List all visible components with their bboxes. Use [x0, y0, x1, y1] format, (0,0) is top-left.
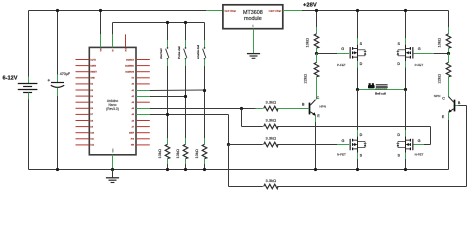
ground symbol below arduino: [112, 170, 114, 178]
wire drive2 down to bottom run: [228, 145, 230, 187]
wire R4 to gate node: [316, 48, 318, 54]
node doorbell ground: [166, 168, 169, 171]
wire switch feed rail: [113, 22, 205, 24]
capacitor C1 470uF: [57, 11, 59, 75]
svg-text:GND: GND: [91, 78, 96, 80]
svg-text:RESET: RESET: [91, 72, 98, 74]
svg-text:D: D: [397, 62, 400, 66]
svg-text:A5: A5: [132, 113, 134, 116]
wire arduino GND pin down: [112, 155, 114, 168]
resistor R3 10k pulldown: [202, 144, 207, 158]
wire R7 down to NPN Q6 collector: [448, 77, 450, 97]
node switch feed Pulse dail: [184, 21, 187, 24]
wire drive2 down: [228, 115, 230, 145]
wire 5V pin up to switch feed rail: [112, 34, 114, 47]
wire Pulse dail column: [185, 66, 187, 138]
svg-text:N-FET: N-FET: [415, 153, 424, 157]
svg-text:N-FET: N-FET: [337, 153, 346, 157]
wire 22k column 2: [448, 54, 450, 63]
node cap ground junction: [56, 168, 59, 171]
transistor Q6 NPN (mirrored): [454, 100, 456, 112]
wire battery positive lead: [28, 11, 30, 77]
svg-text:NPN: NPN: [434, 94, 441, 98]
transistor Q2 P-FET high side right (mirrored): [412, 47, 413, 58]
wire ground rail: [29, 169, 449, 171]
svg-text:doorbell: doorbell: [159, 48, 163, 59]
node Q2 source rail: [404, 9, 407, 12]
svg-text:D5: D5: [91, 102, 93, 104]
resistor R1 10k pulldown: [165, 144, 170, 158]
wire 10k divider column 1 from rail: [316, 11, 318, 28]
svg-text:D: D: [360, 62, 363, 66]
resistor R2 10k pulldown: [183, 144, 188, 158]
wire Q6 base lead: [456, 105, 459, 107]
svg-text:D1/TX: D1/TX: [91, 59, 97, 61]
svg-text:10kΩ: 10kΩ: [194, 149, 199, 158]
switch enable dail: [204, 23, 206, 41]
svg-text:3.3kΩ: 3.3kΩ: [266, 178, 277, 183]
node bell left: [356, 88, 359, 91]
switch Pulse dail: [185, 23, 187, 41]
wire drive1 to N-FET Q4 gate run: [242, 126, 263, 128]
node divider1 top: [315, 9, 318, 12]
battery BT1 6-12V: [18, 83, 38, 85]
node battery/cap junction on top rail: [56, 9, 59, 12]
svg-text:D6: D6: [91, 108, 93, 110]
transistor Q3 N-FET low side left: [350, 139, 351, 150]
svg-text:D12/MISO: D12/MISO: [125, 65, 134, 67]
wire VIN pin to top rail: [100, 11, 102, 35]
wire R5 down to NPN Q5 collector: [316, 77, 318, 100]
svg-text:AREF: AREF: [129, 132, 135, 135]
transistor Q5 NPN: [309, 103, 311, 115]
node arduino ground junction: [111, 168, 114, 171]
resistor R4 10k: [314, 34, 319, 48]
wire 22k column 1: [316, 54, 318, 63]
wire top rail from battery to MT3608 input: [29, 10, 207, 12]
node gate1 divider: [315, 52, 318, 55]
svg-text:6-12V: 6-12V: [3, 76, 18, 82]
wire Q5 emitter to ground: [315, 115, 317, 122]
svg-text:D11: D11: [91, 139, 94, 141]
svg-text:D12: D12: [91, 145, 94, 147]
svg-text:D8: D8: [91, 120, 93, 122]
node Q4 source ground: [404, 168, 407, 171]
svg-text:A3: A3: [132, 101, 134, 104]
node enable dail ground: [203, 168, 206, 171]
switch doorbell: [167, 23, 169, 41]
svg-text:D3: D3: [91, 90, 93, 92]
svg-text:22kΩ: 22kΩ: [302, 74, 307, 83]
svg-text:D4: D4: [91, 96, 93, 98]
svg-text:D11/MOSI: D11/MOSI: [125, 72, 134, 74]
transistor Q4 N-FET low side right (mirrored): [412, 139, 413, 150]
wire Q2 gate from divider 2: [434, 53, 449, 55]
svg-text:G: G: [341, 47, 344, 51]
svg-text:3.3kΩ: 3.3kΩ: [266, 136, 277, 141]
wire R2 to ground: [185, 159, 187, 164]
wire Q3 drain from bell: [357, 90, 359, 131]
svg-text:enable dail: enable dail: [196, 44, 200, 58]
node VIN junction on top rail: [99, 9, 102, 12]
svg-text:G: G: [418, 47, 421, 51]
node Pulse dail tap: [184, 95, 187, 98]
svg-text:⏚: ⏚: [252, 24, 254, 28]
svg-text:NPN: NPN: [319, 105, 326, 109]
svg-text:P-FET: P-FET: [337, 63, 346, 67]
wire MT3608 ground lead: [253, 29, 255, 54]
svg-text:+28V: +28V: [303, 2, 317, 8]
node drive1 branch: [240, 107, 243, 110]
wire Q2 drain to bell: [405, 61, 407, 68]
resistor R11 3.3k base drive 2: [264, 184, 278, 189]
arduino top pin stub D13: [125, 34, 127, 47]
svg-text:470µF: 470µF: [60, 72, 71, 76]
node switch feed doorbell: [166, 21, 169, 24]
wire Q1 source to +28V rail: [357, 11, 359, 39]
node Q5 emitter ground: [314, 168, 317, 171]
wire R1 to ground: [167, 159, 169, 164]
svg-text:A0: A0: [132, 83, 134, 86]
svg-text:D9: D9: [91, 126, 93, 128]
wire capacitor bottom lead: [57, 88, 59, 96]
ground symbol below MT3608: [247, 53, 260, 55]
svg-text:D0/RX: D0/RX: [91, 65, 97, 67]
svg-text:A4: A4: [132, 107, 134, 110]
wire R6 to gate2 node: [448, 48, 450, 54]
svg-text:3V3: 3V3: [126, 48, 128, 51]
wire R9 to Q4 gate corner: [277, 126, 430, 128]
wire doorbell column: [167, 66, 169, 138]
wire enable dail column: [204, 66, 206, 138]
wire Q6 emitter to ground rail corner: [448, 113, 450, 120]
wire Q2 source to +28V rail: [405, 11, 407, 39]
svg-text:module: module: [244, 16, 262, 22]
svg-text:D2: D2: [91, 84, 93, 86]
wire +28V rail from MT3608 output: [283, 10, 302, 12]
wire R11 to right edge and up to Q6 base: [277, 186, 466, 188]
node doorbell/drive2 junction: [166, 113, 169, 116]
node Pulse dail ground: [184, 168, 187, 171]
arduino right pin stubs (unconnected): [136, 59, 150, 61]
svg-text:D7: D7: [91, 114, 93, 116]
resistor R6 10k: [446, 34, 451, 48]
node enable dail tap: [203, 89, 206, 92]
svg-text:3V3: 3V3: [131, 139, 134, 141]
svg-text:D13/SCK: D13/SCK: [126, 59, 135, 61]
svg-text:10kΩ: 10kΩ: [175, 149, 180, 158]
svg-text:input voltage: input voltage: [225, 10, 237, 13]
wire bottom run to NPN Q6 base: [229, 186, 263, 188]
wire gate1 to P-FET Q1: [317, 53, 338, 55]
svg-text:C: C: [317, 96, 320, 100]
wire R3 to ground: [204, 159, 206, 164]
svg-text:A6: A6: [132, 119, 134, 122]
arduino U1 Nano Rev3.0 box: [89, 47, 136, 154]
svg-text:D: D: [397, 133, 400, 137]
wire R10 to Q3 gate: [277, 144, 337, 146]
svg-text:Bell coil: Bell coil: [375, 92, 386, 96]
svg-text:10kΩ: 10kΩ: [157, 149, 162, 158]
wire R8 to Q5 base: [277, 108, 295, 110]
resistor R10 3.3k gate drive: [264, 142, 278, 147]
svg-text:3.3kΩ: 3.3kΩ: [266, 99, 277, 104]
resistor R5 22k: [314, 62, 319, 76]
wire Q5 base lead: [295, 108, 309, 110]
node gate2 divider: [447, 52, 450, 55]
transistor Q1 P-FET high side left: [350, 47, 351, 58]
svg-text:D10: D10: [91, 133, 94, 135]
wire drive2 to N-FET Q3 gate: [229, 144, 263, 146]
wire 10k divider column 2 from rail corner: [448, 11, 450, 28]
wire Q4 source to ground: [405, 153, 407, 159]
resistor R9 3.3k gate drive: [264, 124, 278, 129]
wire Q3 source to ground: [357, 153, 359, 159]
wire drive1 branch down: [241, 109, 243, 127]
wire Q4 drain from bell: [405, 90, 407, 131]
svg-text:A1: A1: [132, 89, 134, 92]
svg-text:A7: A7: [132, 125, 134, 128]
node Q1 source rail: [356, 9, 359, 12]
MT3608 module U2 box: [223, 5, 283, 29]
svg-text:10kΩ: 10kΩ: [304, 38, 309, 47]
svg-text:P-FET: P-FET: [415, 63, 424, 67]
svg-text:3.3kΩ: 3.3kΩ: [266, 118, 277, 123]
svg-text:22kΩ: 22kΩ: [437, 74, 442, 83]
node drive2 split: [227, 143, 230, 146]
svg-text:C: C: [442, 97, 445, 101]
svg-text:G: G: [418, 139, 421, 143]
svg-text:GND: GND: [113, 148, 115, 153]
svg-text:Pulse dail: Pulse dail: [177, 46, 181, 59]
wire Q1 drain to bell: [357, 61, 359, 68]
svg-text:output voltage: output voltage: [269, 10, 282, 13]
wire arduino pin B (drive 2) to doorbell node: [136, 114, 150, 116]
resistor R8 3.3k base drive 1: [256, 108, 263, 110]
wire arduino pin A (drive 1): [136, 108, 150, 110]
arduino left pin stubs (unconnected): [76, 59, 90, 61]
svg-text:A2: A2: [132, 95, 134, 98]
svg-text:D: D: [360, 133, 363, 137]
bell coil L1: [358, 89, 406, 91]
node bell right: [404, 88, 407, 91]
svg-text:(Rev3.0): (Rev3.0): [106, 107, 119, 111]
wire arduino pin to Pulse dail node: [136, 96, 150, 98]
resistor R7 22k: [446, 62, 451, 76]
wire arduino pin to enable dail node: [136, 90, 150, 92]
wire battery negative lead to ground rail: [28, 93, 30, 100]
svg-text:10kΩ: 10kΩ: [437, 38, 442, 47]
svg-text:G: G: [342, 139, 345, 143]
node Q3 source ground: [356, 168, 359, 171]
